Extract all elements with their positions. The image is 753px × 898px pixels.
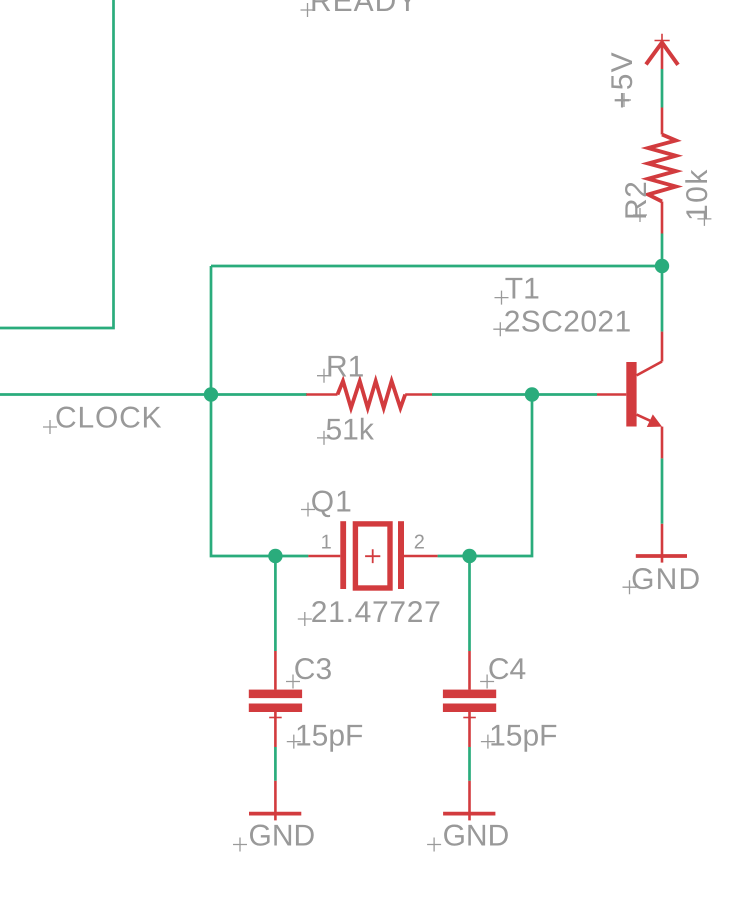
svg-text:10k: 10k <box>681 168 714 221</box>
svg-text:1: 1 <box>321 531 332 553</box>
svg-text:2: 2 <box>414 531 425 553</box>
svg-text:GND: GND <box>443 820 510 853</box>
svg-text:Q1: Q1 <box>311 485 353 518</box>
svg-text:15pF: 15pF <box>489 719 557 752</box>
svg-text:15pF: 15pF <box>295 719 363 752</box>
svg-text:21.47727: 21.47727 <box>311 596 442 629</box>
svg-text:GND: GND <box>631 563 701 596</box>
svg-text:2SC2021: 2SC2021 <box>504 305 632 338</box>
svg-text:READY: READY <box>310 0 418 18</box>
svg-text:C4: C4 <box>488 653 526 686</box>
svg-text:CLOCK: CLOCK <box>55 402 162 435</box>
svg-text:+5V: +5V <box>606 51 639 109</box>
svg-text:GND: GND <box>249 820 316 853</box>
svg-text:T1: T1 <box>505 273 540 306</box>
svg-text:51k: 51k <box>326 414 375 447</box>
svg-text:R1: R1 <box>326 351 364 384</box>
svg-text:C3: C3 <box>294 653 332 686</box>
svg-text:R2: R2 <box>620 181 653 220</box>
